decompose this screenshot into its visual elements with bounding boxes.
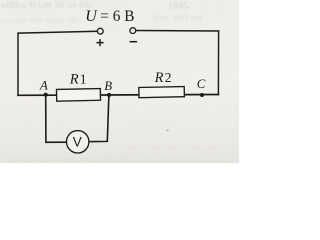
svg-text:1: 1 [80, 72, 87, 87]
svg-text:2: 2 [165, 70, 172, 85]
terminal circle - [130, 28, 136, 34]
node C dot [200, 93, 204, 97]
resistor R1 box [56, 89, 100, 102]
svg-text:мППіы НАіМ ЗП ііч бХі: мППіы НАіМ ЗП ііч бХі [1, 1, 93, 10]
svg-text:A: A [39, 78, 48, 92]
wire voltmeter branch [46, 95, 67, 143]
svg-text:при посл напряжение на: при посл напряжение на [8, 155, 128, 163]
speck [167, 130, 169, 132]
svg-text:C: C [197, 77, 206, 91]
wire main horizontal [18, 94, 218, 97]
wire right vertical [217, 31, 219, 95]
svg-text:U: U [85, 8, 98, 25]
node A dot [44, 93, 48, 97]
terminal circle + [97, 28, 103, 34]
svg-text:(рис. 161) вел: (рис. 161) вел [153, 12, 203, 22]
svg-text:B: B [104, 79, 112, 93]
faint bleed-through marks bottom [8, 143, 219, 165]
label + [97, 39, 104, 46]
svg-text:V: V [73, 134, 82, 149]
svg-text:R: R [69, 72, 79, 88]
svg-text:= 6 В: = 6 В [100, 8, 134, 25]
wire left-top loop [18, 31, 97, 95]
voltmeter circle [67, 131, 89, 153]
faint bleed-through text top-left [1, 1, 93, 25]
faint bleed-through number top-right [153, 1, 203, 22]
resistor R2 box [139, 87, 185, 98]
svg-text:одинаково и: одинаково и [148, 156, 219, 163]
svg-text:нешшіе пші маюн нбе: нешшіе пші маюн нбе [1, 16, 80, 25]
svg-text:R: R [154, 70, 164, 86]
wire top-right [136, 30, 219, 33]
svg-text:1095.: 1095. [168, 1, 191, 12]
label - [130, 41, 138, 43]
node B dot [107, 93, 111, 97]
